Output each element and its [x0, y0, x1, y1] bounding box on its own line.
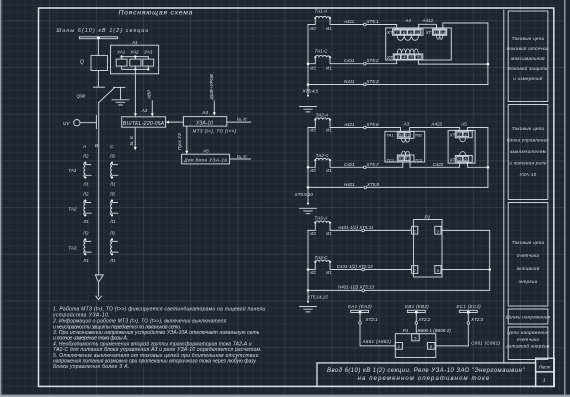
- svg-text:ЕС1 (ЕС2): ЕС1 (ЕС2): [457, 304, 482, 309]
- svg-text:И1: И1: [326, 168, 332, 173]
- wire: TA3-A I2 to bus: [308, 223, 315, 231]
- CT TA3 phase A: [84, 240, 91, 255]
- svg-text:ТА3: ТА3: [68, 246, 77, 251]
- svg-text:Н421: Н421: [344, 182, 355, 187]
- ground (group1 bus): [300, 107, 317, 112]
- svg-text:И1: И1: [326, 128, 332, 133]
- svg-text:Q: Q: [80, 59, 84, 65]
- svg-text:10: 10: [416, 30, 421, 35]
- svg-text:Доп.блок УЗА-10: Доп.блок УЗА-10: [183, 158, 227, 163]
- svg-text:В600-1 (В600-2): В600-1 (В600-2): [418, 328, 452, 333]
- CT TA3 phase C: [111, 240, 118, 255]
- svg-text:счетчика: счетчика: [517, 337, 540, 342]
- svg-text:И2: И2: [310, 128, 316, 133]
- svg-text:Лист: Лист: [538, 364, 551, 369]
- svg-text:Iа, Iс: Iа, Iс: [237, 117, 248, 122]
- wire: 6 to N return: [419, 60, 488, 64]
- svg-text:ТС2: ТС2: [415, 158, 423, 163]
- svg-text:ХТ5:14,15: ХТ5:14,15: [306, 294, 328, 299]
- wire: A5 4 up right to N: [468, 128, 488, 188]
- svg-text:ХТ2:3: ХТ2:3: [470, 317, 484, 322]
- svg-text:Л2: Л2: [109, 230, 116, 235]
- svg-text:ТВ2: ТВ2: [415, 133, 423, 138]
- svg-text:1: 1: [543, 378, 546, 383]
- svg-text:А4: А4: [404, 18, 411, 23]
- svg-text:А3: А3: [141, 108, 148, 113]
- svg-text:блока управления: блока управления: [507, 138, 550, 143]
- svg-text:Шины 6(10) кВ 1(2) секции: Шины 6(10) кВ 1(2) секции: [57, 28, 150, 34]
- svg-text:Л1: Л1: [109, 219, 116, 224]
- wire: A1 bottom common: [122, 66, 149, 69]
- svg-text:И2: И2: [310, 168, 316, 173]
- svg-text:на переменном оперативном токе: на переменном оперативном токе: [358, 376, 491, 382]
- winding arcs under 7-10: [397, 35, 419, 40]
- sheet box (Лист): [536, 358, 555, 372]
- svg-text:активной: активной: [517, 265, 540, 271]
- svg-text:ХТ5:4,5: ХТ5:4,5: [302, 89, 319, 94]
- svg-text:И1: И1: [326, 231, 332, 236]
- svg-text:ТА1-А: ТА1-А: [315, 9, 328, 14]
- terminal 5: [412, 334, 420, 341]
- title box: [317, 363, 536, 387]
- svg-text:и измерений: и измерений: [513, 75, 543, 81]
- svg-text:ТА1-С: ТА1-С: [315, 49, 329, 54]
- window bottom edge: [0, 395, 570, 397]
- svg-text:ТА1: ТА1: [387, 133, 394, 138]
- svg-text:N411: N411: [344, 79, 355, 84]
- svg-text:А861 (А862): А861 (А862): [362, 339, 392, 344]
- terminal 2: [395, 343, 402, 350]
- node: bus tap junction: [97, 36, 100, 39]
- column outer lines: [503, 10, 505, 363]
- svg-text:ХТ5:3: ХТ5:3: [366, 79, 380, 84]
- svg-text:ТА3-С: ТА3-С: [315, 255, 329, 260]
- terminals 7 8 9 10: [393, 29, 423, 35]
- svg-text:ХТ5:9,10: ХТ5:9,10: [294, 192, 314, 197]
- svg-text:UV: UV: [63, 121, 70, 126]
- ground (right of Q90): [112, 87, 129, 105]
- svg-text:активной энергии: активной энергии: [506, 343, 550, 349]
- svg-text:С861 (С862): С861 (С862): [471, 341, 500, 346]
- svg-text:А5: А5: [460, 121, 467, 126]
- svg-text:счетчика: счетчика: [517, 253, 540, 258]
- svg-text:Iа, Iс: Iа, Iс: [237, 154, 248, 159]
- wire: A1 top common: [122, 57, 149, 60]
- terminal 8: [428, 343, 436, 350]
- svg-text:А1: А1: [131, 40, 138, 45]
- svg-text:Пуск УЗ: Пуск УЗ: [177, 133, 182, 150]
- svg-text:Шинки напряжения: Шинки напряжения: [506, 315, 551, 320]
- svg-text:А431-1(2) ХТ5:11: А431-1(2) ХТ5:11: [337, 225, 374, 230]
- terminal 9: [435, 266, 441, 274]
- winding arcs above T2-T3: [402, 151, 410, 155]
- svg-text:А3: А3: [403, 121, 410, 126]
- wire: bus to Q: [97, 39, 99, 56]
- svg-text:Токовые цепи: Токовые цепи: [512, 126, 545, 131]
- svg-text:ТА2: ТА2: [68, 207, 77, 212]
- terminal XT5:1: [364, 23, 367, 26]
- svg-text:ЕВ1 (ЕВ2): ЕВ1 (ЕВ2): [405, 304, 429, 309]
- winding arcs under 10-T1: [402, 138, 410, 142]
- svg-text:УЗА-10: УЗА-10: [520, 172, 537, 177]
- CT TA2 phase A: [84, 201, 91, 216]
- svg-text:А412: А412: [422, 18, 434, 23]
- svg-text:1: 1: [414, 229, 416, 234]
- svg-text:Л2: Л2: [82, 230, 89, 235]
- box: voltage bus links: [508, 309, 548, 324]
- bus: I2 common (group1): [307, 25, 309, 97]
- wire: A3 to A4: [168, 121, 183, 123]
- svg-text:УА1: УА1: [117, 50, 126, 55]
- svg-text:А: А: [82, 144, 86, 149]
- svg-text:токовой отсечки,: токовой отсечки,: [507, 45, 550, 51]
- svg-text:МТЗ (t>), ТО (t>>): МТЗ (t>), ТО (t>>): [193, 129, 237, 134]
- window left edge: [0, 0, 1, 397]
- svg-text:ЕА1 (ЕА2): ЕА1 (ЕА2): [348, 304, 372, 309]
- svg-text:ХТ: ХТ: [425, 30, 432, 35]
- svg-text:Р1: Р1: [403, 328, 409, 333]
- svg-text:Л2: Л2: [82, 154, 89, 159]
- svg-text:ХТ5:1: ХТ5:1: [366, 19, 380, 24]
- wire: Q down to contact: [97, 71, 99, 87]
- wire: A1 to A3: [134, 69, 136, 114]
- bus: I2 common (group2): [307, 128, 309, 204]
- svg-text:Н431-1(2) ХТ5:13: Н431-1(2) ХТ5:13: [338, 285, 375, 290]
- svg-text:ХТ5:2: ХТ5:2: [366, 58, 380, 63]
- grounded contact tick: [114, 86, 126, 88]
- svg-text:А421: А421: [343, 122, 355, 127]
- svg-text:ХТ5:8: ХТ5:8: [366, 182, 380, 187]
- bus: I2 common (group3): [307, 230, 309, 302]
- svg-text:А5: А5: [202, 149, 209, 154]
- svg-text:Ввод 6(10) кВ 1(2) секции. Ре: Ввод 6(10) кВ 1(2) секции. Реле УЗА-10 З…: [327, 368, 525, 374]
- svg-text:блока управления более 3 А.: блока управления более 3 А.: [53, 364, 130, 370]
- svg-text:И2: И2: [310, 231, 316, 236]
- svg-text:ХТ5:6: ХТ5:6: [366, 122, 380, 127]
- wire: Ia Ic down from A3: [134, 127, 136, 147]
- svg-text:И1: И1: [326, 66, 332, 71]
- CT TA1 phase C: [111, 163, 118, 178]
- svg-text:ТС1: ТС1: [387, 158, 395, 163]
- box: control unit circuits: [508, 105, 548, 200]
- svg-text:ХТ: ХТ: [449, 158, 456, 163]
- svg-text:13: 13: [434, 30, 439, 35]
- svg-text:И1: И1: [326, 26, 332, 31]
- svg-text:ТА2-А: ТА2-А: [316, 112, 329, 117]
- svg-text:Токовые цепи: Токовые цепи: [512, 36, 545, 41]
- svg-text:Л1: Л1: [82, 258, 89, 263]
- CT TA1 phase A: [84, 163, 91, 178]
- svg-text:Токовые цепи: Токовые цепи: [512, 240, 545, 245]
- svg-text:максимальной: максимальной: [511, 55, 545, 61]
- svg-text:ХТ2:1: ХТ2:1: [365, 317, 379, 322]
- svg-text:ХТ2:2: ХТ2:2: [417, 317, 431, 322]
- winding arcs under 13-14: [437, 35, 443, 39]
- svg-text:Т1: Т1: [405, 133, 409, 137]
- svg-text:токовой защиты: токовой защиты: [507, 65, 549, 71]
- svg-text:1. Работа МТЗ (t>), ТО (t>>) ф: 1. Работа МТЗ (t>), ТО (t>>) фиксируется…: [53, 305, 266, 312]
- svg-text:УА3: УА3: [144, 50, 153, 55]
- winding arc 5-6: [460, 152, 466, 156]
- svg-text:ТА1: ТА1: [68, 168, 77, 173]
- wire: TA2-A I2 to bus: [308, 120, 315, 128]
- svg-text:И1: И1: [326, 270, 332, 275]
- terminal 3: [435, 226, 441, 234]
- svg-text:И2: И2: [310, 66, 316, 71]
- window right edge: [564, 0, 566, 395]
- winding arcs above 3-6: [397, 49, 418, 54]
- ground (group2 bus): [300, 208, 317, 213]
- svg-text:ТА2-С: ТА2-С: [316, 153, 330, 158]
- svg-text:И2: И2: [310, 270, 316, 275]
- CT TA2 phase C: [111, 201, 118, 216]
- svg-text:А411: А411: [343, 19, 355, 24]
- svg-text:Л2: Л2: [82, 192, 89, 197]
- svg-text:ТА3-А: ТА3-А: [315, 216, 328, 221]
- box: current circuits of relay: [508, 11, 548, 102]
- svg-text:УА2: УА2: [130, 50, 139, 55]
- svg-text:АВР: АВР: [147, 90, 152, 100]
- wire: A5 6 down right to N: [468, 163, 488, 167]
- wire: TA1-A I2 to bus: [308, 18, 315, 24]
- terminals 10 T1: [397, 132, 414, 139]
- wire: TA2-C I2 to bus: [308, 160, 315, 167]
- svg-text:Р1: Р1: [425, 215, 431, 220]
- terminals 3 4: [455, 131, 472, 138]
- wire: return from 14 to N: [443, 23, 488, 85]
- svg-text:выключателем: выключателем: [510, 149, 546, 154]
- svg-text:В: В: [95, 143, 98, 148]
- box: meter current circuits: [508, 203, 548, 307]
- svg-text:Л2: Л2: [109, 154, 116, 159]
- svg-text:Iа, Iс: Iа, Iс: [129, 135, 134, 146]
- svg-text:Л1: Л1: [109, 258, 116, 263]
- svg-text:ХТ: ХТ: [449, 133, 456, 138]
- wire: P1 3 to right riser: [441, 269, 490, 271]
- svg-text:С411: С411: [344, 58, 355, 63]
- svg-text:Поясняющая схема: Поясняющая схема: [119, 10, 194, 17]
- svg-text:Л1: Л1: [109, 181, 116, 186]
- svg-text:14: 14: [441, 30, 446, 35]
- svg-text:С422: С422: [433, 162, 444, 167]
- wire: A411 down into relay terminal 7: [396, 25, 398, 30]
- terminal 7: [412, 266, 418, 274]
- svg-text:Л1: Л1: [82, 181, 89, 186]
- box: meter voltage circuits: [508, 327, 548, 360]
- wire: phase B main line: [98, 103, 100, 275]
- svg-text:ХТ: ХТ: [386, 55, 393, 60]
- svg-text:А422: А422: [431, 121, 443, 126]
- arrow: feeder outgoing: [95, 275, 103, 296]
- svg-text:А4: А4: [201, 110, 208, 115]
- svg-text:И2: И2: [310, 26, 316, 31]
- winding arc 3-4: [460, 138, 466, 142]
- svg-text:Q90: Q90: [77, 94, 86, 99]
- ground (group3 bus): [300, 307, 317, 312]
- busbar (шины): [79, 37, 117, 39]
- svg-text:С431-1(2) ХТ5:12: С431-1(2) ХТ5:12: [337, 264, 374, 269]
- svg-text:Л2: Л2: [109, 192, 116, 197]
- svg-text:ХТ: ХТ: [386, 30, 393, 35]
- svg-text:Л1: Л1: [82, 219, 89, 224]
- svg-text:С421: С421: [344, 162, 355, 167]
- svg-text:устройства УЗА-10.: устройства УЗА-10.: [52, 312, 110, 319]
- terminal 1: [412, 226, 418, 234]
- svg-text:энергии: энергии: [519, 279, 538, 284]
- svg-text:ДШВ+УРОВ: ДШВ+УРОВ: [209, 74, 214, 100]
- wire: TA3-C I2 to bus: [308, 262, 315, 270]
- svg-text:Цепи напряжения: Цепи напряжения: [507, 330, 549, 335]
- wire: TA1-C I2 to bus: [308, 57, 315, 63]
- svg-text:ХТ5:7: ХТ5:7: [366, 162, 380, 167]
- contact tick (upper): [93, 86, 104, 88]
- svg-text:УЗА-10: УЗА-10: [196, 120, 213, 126]
- svg-text:и питания реле: и питания реле: [509, 161, 547, 166]
- svg-text:BU/TEL-220-05А: BU/TEL-220-05А: [123, 121, 165, 127]
